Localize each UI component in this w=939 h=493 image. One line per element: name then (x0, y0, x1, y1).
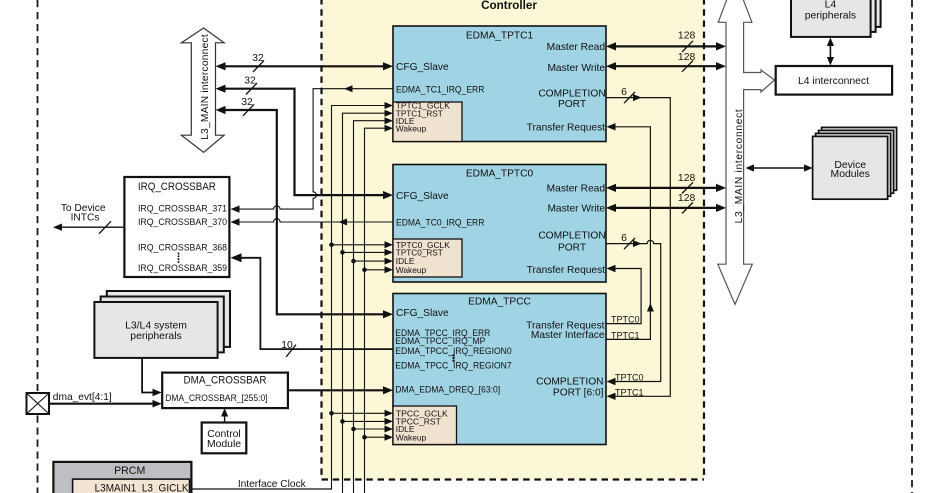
svg-text:Modules: Modules (831, 169, 870, 180)
branch arrow from L3_MAIN arrow to L4 interconnect (743, 70, 775, 92)
svg-text:128: 128 (678, 31, 696, 42)
svg-text:Wakeup: Wakeup (396, 432, 427, 442)
svg-text:Interface Clock: Interface Clock (238, 479, 307, 490)
wire 6-bit completion TPTC0 to TPCC COMPLETION TPTC0 (606, 233, 661, 385)
svg-text:L3_MAIN interconnect: L3_MAIN interconnect (734, 109, 745, 224)
device boundary dashed line left (37, 0, 39, 493)
svg-text:6: 6 (621, 87, 627, 98)
node To Device INTCs (61, 203, 106, 224)
svg-text:Transfer Request: Transfer Request (527, 265, 605, 276)
svg-text:IRQ_CROSSBAR: IRQ_CROSSBAR (138, 181, 216, 193)
svg-text:dma_evt[4:1]: dma_evt[4:1] (53, 392, 112, 403)
svg-text:6: 6 (621, 233, 627, 244)
svg-text:COMPLETION: COMPLETION (536, 377, 603, 388)
DMA_CROSSBAR box (162, 373, 288, 409)
svg-text:TPTC0: TPTC0 (615, 372, 644, 382)
wire 128-bit Master Write TPTC1 (606, 52, 726, 72)
svg-text:Transfer Request: Transfer Request (527, 123, 605, 134)
block EDMA_TPTC0 (393, 165, 606, 283)
wire L4 peripherals to L4 interconnect (double arrow) (827, 38, 834, 66)
svg-text:PORT [6:0]: PORT [6:0] (553, 388, 604, 399)
svg-text:Master Write: Master Write (547, 203, 605, 214)
wire L3/L4 system peripherals to DMA_CROSSBAR (142, 358, 162, 396)
wire 10-bit IRQ bus TPCC to IRQ_CROSSBAR (231, 253, 394, 357)
wire IRQ_CROSSBAR to Device INTCs (53, 221, 123, 234)
device boundary dashed line right (911, 0, 913, 493)
wire EDMA_TC0_IRQ_ERR to IRQ_CROSSBAR_370 (231, 218, 394, 225)
svg-text:L3/L4 system: L3/L4 system (125, 320, 187, 331)
svg-text:EDMA_TPCC: EDMA_TPCC (468, 297, 531, 308)
svg-text:IRQ_CROSSBAR_370: IRQ_CROSSBAR_370 (138, 217, 227, 228)
svg-text:COMPLETION: COMPLETION (538, 231, 605, 242)
label TPTC0 completion input (615, 372, 644, 382)
L3/L4 system peripherals (stacked boxes) (94, 291, 230, 358)
svg-text:DMA_CROSSBAR: DMA_CROSSBAR (184, 375, 267, 387)
svg-text:DMA_EDMA_DREQ_[63:0]: DMA_EDMA_DREQ_[63:0] (395, 385, 500, 395)
dma_evt[4:1] input (crossed box) (27, 392, 112, 414)
svg-text:L4: L4 (825, 0, 837, 11)
wire Interface Clock from PRCM (191, 479, 332, 490)
clock wire v4 Wakeup (362, 125, 393, 493)
svg-text:Master Read: Master Read (547, 42, 606, 53)
clock wire v3 IDLE (351, 117, 393, 493)
clock box TPTC0 (tan) (393, 239, 462, 277)
svg-text:PORT: PORT (558, 99, 586, 110)
svg-text:PORT: PORT (558, 242, 586, 253)
PRCM clock L3MAIN1_L3_GICLK (tan box) (73, 479, 190, 493)
clock box TPCC (tan) (393, 406, 457, 445)
svg-text:EDMA_TC0_IRQ_ERR: EDMA_TC0_IRQ_ERR (396, 217, 485, 227)
Control Module box (202, 423, 247, 454)
svg-text:EDMA_TC1_IRQ_ERR: EDMA_TC1_IRQ_ERR (396, 84, 485, 94)
svg-text:Controller: Controller (481, 0, 537, 12)
svg-text:Master Write: Master Write (547, 63, 605, 74)
wire DMA_CROSSBAR to TPCC DMA_EDMA_DREQ (288, 386, 393, 394)
svg-text:IRQ_CROSSBAR_368: IRQ_CROSSBAR_368 (138, 242, 227, 253)
svg-text:CFG_Slave: CFG_Slave (396, 62, 449, 73)
svg-text:EDMA_TPTC1: EDMA_TPTC1 (466, 31, 534, 42)
svg-text:TPTC1: TPTC1 (615, 387, 644, 397)
wire TPCC Transfer Request TPTC1 to TPTC1 (606, 123, 654, 340)
svg-text:Master Read: Master Read (547, 183, 606, 194)
svg-text:32: 32 (244, 76, 256, 87)
svg-text:Master Interface: Master Interface (531, 330, 605, 341)
svg-text:COMPLETION: COMPLETION (538, 88, 605, 99)
svg-text:Module: Module (207, 439, 241, 450)
svg-text:TPTC1: TPTC1 (611, 330, 640, 340)
L4 interconnect box (776, 66, 892, 95)
svg-text:Wakeup: Wakeup (396, 265, 427, 275)
wire 128-bit Master Read TPTC0 (606, 173, 726, 194)
clock wire v2 RST (340, 110, 393, 493)
svg-text:peripherals: peripherals (805, 10, 856, 21)
IRQ_CROSSBAR box (124, 177, 229, 277)
svg-text:32: 32 (241, 97, 253, 108)
wire 6-bit completion TPTC1 to TPCC COMPLETION TPTC1 (606, 87, 670, 400)
L3_MAIN interconnect arrow (left) (181, 28, 224, 152)
wire TPCC Transfer Request TPTC0 to TPTC0 (606, 265, 641, 325)
PRCM box (53, 462, 191, 493)
svg-text:EDMA_TPTC0: EDMA_TPTC0 (466, 168, 534, 179)
clock wire v1 GCLK (329, 102, 393, 489)
svg-text:CFG_Slave: CFG_Slave (396, 191, 449, 202)
svg-text:CFG_Slave: CFG_Slave (396, 308, 449, 319)
svg-text:peripherals: peripherals (130, 331, 181, 342)
wire EDMA_TC1_IRQ_ERR to IRQ_CROSSBAR_371 (231, 85, 394, 213)
svg-text:PRCM: PRCM (114, 465, 145, 477)
clock box TPTC1 (tan) (393, 101, 462, 142)
wire 32-bit bus L3_MAIN to TPTC0 CFG_Slave (216, 76, 394, 200)
svg-text:10: 10 (281, 340, 293, 351)
svg-text:INTCs: INTCs (71, 213, 100, 224)
wire 128-bit Master Read TPTC1 (606, 31, 726, 52)
svg-text:TPTC0: TPTC0 (611, 315, 640, 325)
svg-text:L3_MAIN interconnect: L3_MAIN interconnect (200, 34, 211, 140)
wire dma_evt to DMA_CROSSBAR (49, 400, 162, 408)
svg-text:DMA_CROSSBAR_[255:0]: DMA_CROSSBAR_[255:0] (165, 393, 267, 404)
Device Modules (stacked boxes) (813, 127, 897, 199)
wire 32-bit bus L3_MAIN to TPCC CFG_Slave (216, 97, 394, 319)
svg-text:L3MAIN1_L3_GICLK: L3MAIN1_L3_GICLK (95, 483, 189, 493)
EDMA Controller region (yellow dashed block) (322, 0, 705, 480)
wire 128-bit Master Write TPTC0 (606, 193, 726, 214)
wire 32-bit bus L3_MAIN to TPTC1 CFG_Slave (216, 53, 394, 72)
svg-text:IRQ_CROSSBAR_371: IRQ_CROSSBAR_371 (138, 204, 227, 215)
svg-text:EDMA_TPCC_IRQ_REGION7: EDMA_TPCC_IRQ_REGION7 (395, 361, 511, 371)
svg-text:IRQ_CROSSBAR_359: IRQ_CROSSBAR_359 (138, 263, 227, 274)
label TPTC1 completion input (615, 387, 644, 397)
svg-text:L4 interconnect: L4 interconnect (798, 76, 869, 87)
block EDMA_TPTC1 (393, 26, 606, 142)
svg-text:EDMA_TPCC_IRQ_MP: EDMA_TPCC_IRQ_MP (395, 336, 485, 346)
L4 peripherals (stacked boxes) (791, 0, 881, 37)
wire L3_MAIN arrow to Device Modules (double arrow) (746, 164, 813, 171)
wire Control Module to DMA_CROSSBAR (221, 408, 228, 422)
block EDMA_TPCC (393, 294, 606, 445)
label Controller (481, 0, 537, 12)
L3_MAIN interconnect arrow (right) (718, 0, 753, 304)
svg-text:Wakeup: Wakeup (396, 123, 427, 133)
